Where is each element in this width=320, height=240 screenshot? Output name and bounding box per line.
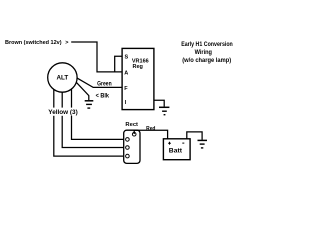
rectifier terminal ac3 — [126, 154, 130, 158]
regulator U1 VR166 box — [122, 48, 154, 109]
wire black from ALT to ground — [76, 82, 89, 100]
battery + terminal mark — [168, 142, 171, 145]
svg-text:< Blk: < Blk — [96, 94, 110, 100]
wire yellow 2 (middle) ALT to rectifier middle terminal — [62, 92, 123, 147]
svg-text:Rect: Rect — [125, 122, 138, 128]
svg-text:A: A — [124, 71, 128, 77]
svg-text:Yellow (3): Yellow (3) — [48, 109, 77, 116]
svg-text:Batt: Batt — [169, 148, 183, 155]
battery - terminal mark — [182, 142, 184, 144]
svg-text:Brown (switched 12v): Brown (switched 12v) — [5, 40, 62, 46]
battery BATT — [163, 139, 190, 160]
rectifier box — [124, 130, 140, 163]
svg-text:ALT: ALT — [57, 75, 69, 82]
wire brown from switched 12v to regulator pin A — [71, 42, 122, 72]
svg-text:Reg: Reg — [133, 64, 143, 70]
svg-text:Green: Green — [97, 81, 112, 87]
ground battery — [198, 140, 208, 148]
ground ALT — [85, 101, 94, 108]
wire jumper pin A to pin S — [115, 56, 122, 72]
svg-text:Wiring: Wiring — [195, 49, 213, 56]
svg-text:S: S — [125, 54, 129, 60]
label Yellow (3) — [47, 108, 78, 116]
wire battery - to ground — [187, 132, 202, 140]
rectifier terminal ac2 — [126, 146, 130, 150]
svg-text:Red: Red — [146, 126, 155, 132]
ground regulator — [159, 107, 169, 114]
wire green from ALT to regulator pin F — [77, 78, 122, 87]
svg-text:Early H1 Conversion: Early H1 Conversion — [181, 41, 233, 48]
wire yellow 3 (right) ALT to rectifier top terminal — [72, 89, 124, 139]
svg-text:(w/o charge lamp): (w/o charge lamp) — [182, 57, 231, 64]
wire red rectifier to battery + — [134, 130, 167, 139]
svg-text:>: > — [65, 40, 68, 46]
wire yellow 1 (left) ALT to rectifier bottom terminal — [54, 89, 124, 156]
rectifier terminal + (top) — [132, 132, 136, 136]
rectifier terminal ac1 — [126, 138, 130, 142]
wire regulator case to ground — [154, 100, 164, 106]
alternator ALT — [48, 63, 77, 92]
